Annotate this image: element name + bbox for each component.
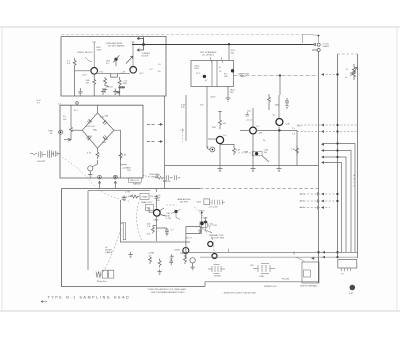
dashed connector y131.5 — [297, 131, 358, 133]
set-scanning outer box — [191, 61, 234, 87]
sampler emitter rail — [155, 216, 157, 241]
trig transistor Q — [88, 166, 93, 171]
vertical rail sampler feed — [155, 189, 157, 210]
svg-text:470 3W: 470 3W — [163, 181, 171, 183]
wire Q34 collector top — [278, 95, 280, 118]
inner top wire — [88, 190, 150, 192]
delay line feed wire — [120, 200, 190, 242]
svg-text:+12.6: +12.6 — [299, 194, 305, 196]
resistor emitter network — [220, 144, 236, 155]
svg-text:AVALANCHE: AVALANCHE — [178, 198, 191, 201]
svg-text:C302: C302 — [196, 201, 202, 203]
trigger block outline — [60, 105, 143, 178]
arrow on rail right end — [311, 257, 314, 260]
wire Q24 base — [240, 130, 250, 132]
set-scanning divider 1 — [211, 61, 213, 87]
sampler transistor — [154, 210, 161, 217]
trig input connector — [59, 130, 63, 134]
ground sym x80 — [78, 88, 82, 95]
arrow to trig block upper — [137, 37, 144, 51]
dark transistor t210 — [208, 242, 213, 247]
cap right of Q34 — [285, 98, 289, 109]
svg-text:100 R76: 100 R76 — [180, 202, 189, 204]
dashed curve to lower block — [62, 158, 131, 202]
inverter transistor — [183, 248, 189, 254]
pot wiper diagonal — [351, 67, 358, 76]
title arrow — [41, 301, 47, 303]
caps cluster c1 — [208, 265, 225, 274]
lower block bottom right — [205, 259, 319, 287]
connector wire y157 — [322, 157, 346, 252]
svg-text:10V: 10V — [230, 92, 234, 94]
ground sym x115 — [113, 89, 117, 95]
strobe dot — [255, 152, 258, 155]
avalanche strobe rect — [204, 199, 210, 205]
wire Q21 emitter — [219, 144, 221, 166]
svg-text:1 TD: 1 TD — [99, 72, 104, 74]
top row: cap 4.7M — [122, 196, 126, 202]
avalanche wire — [201, 210, 203, 234]
top row cap 100 — [155, 195, 159, 200]
svg-text:+LINE: +LINE — [148, 253, 155, 255]
dashes mid bottom — [238, 152, 252, 154]
base wire Q13 — [75, 70, 91, 72]
swp inner rect — [304, 270, 311, 277]
wire sampler collector — [160, 208, 166, 216]
ground x103 under block — [101, 88, 105, 94]
bridge bottom wire — [97, 148, 99, 151]
svg-text:DC LEVELS: DC LEVELS — [202, 55, 215, 57]
vertical bus x357 — [357, 54, 359, 258]
wire +100V feed — [93, 42, 96, 67]
svg-text:DELAY: DELAY — [214, 275, 222, 278]
ground below rail Q34 — [277, 166, 282, 172]
norm psn dot — [174, 210, 177, 213]
ext trig cap ticks — [39, 151, 46, 158]
input resistor x71 — [70, 105, 73, 140]
svg-text:5347: 5347 — [180, 253, 186, 255]
dark transistor t214 — [212, 254, 217, 259]
wire corner above block — [121, 164, 127, 166]
junction dot x229 rail — [228, 43, 230, 45]
svg-text:720 71: 720 71 — [185, 238, 192, 240]
resistor column x119.7 — [118, 77, 121, 96]
transistor Q13 — [91, 68, 98, 75]
svg-text:SET SCANNING: SET SCANNING — [200, 51, 217, 54]
trigger regen block outline — [61, 37, 166, 97]
tp circle bottom 1 — [98, 175, 102, 179]
arrowheads right connectors — [321, 124, 324, 209]
dashed connector y74.5 — [322, 74, 338, 76]
leader lines scanning — [210, 57, 223, 63]
svg-text:CABLE: CABLE — [105, 251, 113, 254]
wire top right corner — [302, 35, 319, 44]
resistor below bridge — [96, 151, 99, 164]
lower block outline — [62, 189, 206, 287]
svg-text:4.7M: 4.7M — [125, 192, 130, 194]
sampler base stub — [149, 208, 154, 212]
page left edge — [1, 27, 3, 311]
gnd under q2 — [190, 263, 194, 270]
svg-text:SWP EXTERNAL: SWP EXTERNAL — [300, 285, 318, 288]
svg-text:TRIG: TRIG — [48, 131, 54, 133]
svg-text:524B: 524B — [202, 218, 208, 220]
scope box marks — [342, 268, 351, 271]
dashed connector y125 — [297, 124, 358, 126]
svg-text:NO SET RANGE: NO SET RANGE — [108, 45, 125, 48]
page top edge — [0, 26, 400, 28]
svg-text:+19.5V: +19.5V — [322, 44, 330, 46]
junction dot 337/74.5 — [336, 73, 338, 75]
stamp blob — [350, 285, 356, 291]
inner left vertical — [87, 191, 89, 270]
wire Q24 emitter — [252, 134, 254, 166]
wire right transistor top — [131, 42, 134, 66]
resistor 47k cluster — [268, 94, 271, 110]
junction dot q34 base — [278, 129, 280, 131]
bal rect — [145, 205, 153, 211]
up arrow tp1 — [98, 181, 100, 189]
svg-text:5-25: 5-25 — [213, 225, 218, 227]
arrowhead trig conn 1 — [160, 123, 163, 126]
coax ticks — [229, 249, 294, 255]
avalanche gnd — [198, 229, 202, 234]
wire into Q — [92, 164, 98, 167]
swp ext box — [302, 262, 319, 283]
tunnel diode dot — [114, 58, 117, 61]
arrowhead trig conn 2 — [160, 140, 163, 143]
svg-text:SNAP OFF: SNAP OFF — [141, 201, 153, 204]
svg-text:5-25: 5-25 — [108, 87, 113, 89]
junction dots right bus — [317, 35, 338, 259]
dashed connector y207.5 — [300, 207, 330, 209]
connector bars right edge — [316, 192, 318, 209]
ground under Q — [88, 171, 92, 177]
svg-text:GA5D: GA5D — [153, 219, 159, 222]
svg-text:+BLK: +BLK — [230, 90, 236, 92]
svg-text:4.7M: 4.7M — [166, 218, 171, 220]
svg-text:56B: 56B — [123, 83, 127, 85]
transformer dark bars — [48, 150, 52, 158]
strobe diagonal — [262, 156, 269, 162]
transistor Q24 — [250, 127, 257, 134]
probe power rects — [96, 270, 114, 278]
resistor gnd x159 — [157, 259, 161, 275]
connector wire y144.5 — [322, 144, 355, 253]
testpoint connector circle — [210, 147, 215, 152]
right top connector pair — [312, 43, 320, 51]
pot R in dashed box — [350, 64, 356, 80]
ground below rail Q21 — [218, 166, 223, 172]
cap near Q24 top — [245, 112, 249, 116]
pot wiper arrow — [126, 56, 133, 64]
bridge right wire — [114, 130, 121, 178]
shield arc bottom left — [97, 229, 121, 282]
dashed connector y194 — [300, 193, 338, 195]
lower block top dashed right — [200, 188, 319, 190]
schematic outer dashed boundary top — [61, 34, 302, 36]
trigger level box — [128, 178, 141, 182]
svg-text:ADJUST R85: ADJUST R85 — [211, 237, 225, 240]
svg-text:RANGE: RANGE — [133, 183, 141, 186]
svg-text:TD45: TD45 — [199, 211, 205, 213]
wire x207 to tp — [207, 146, 210, 150]
svg-text:MOUNT: MOUNT — [38, 161, 47, 163]
bottom right: scope box — [338, 260, 357, 269]
svg-text:Q50B: Q50B — [174, 250, 180, 252]
resistor x185 — [184, 255, 187, 264]
resistor above Q21 — [218, 112, 221, 130]
avalanche caps ticks — [209, 200, 224, 205]
caps cluster c2 — [253, 264, 275, 274]
top edge connector circle — [76, 102, 79, 105]
svg-text:DELAY: DELAY — [105, 249, 113, 252]
up arrow tp2 — [114, 181, 116, 189]
svg-text:SEE T/M MEASUREMENTS INFO: SEE T/M MEASUREMENTS INFO — [151, 291, 185, 294]
bridge diode marks — [86, 119, 107, 140]
resistor +line — [149, 255, 152, 264]
strobe dot lower — [204, 221, 207, 224]
dashes sampler-avalanche — [167, 204, 177, 206]
vertical rail x207 — [206, 87, 208, 147]
svg-text:NORMAL PSN: NORMAL PSN — [209, 234, 224, 237]
tp circle bottom 2 — [113, 175, 117, 179]
transistor q2 low — [190, 258, 195, 263]
arrowhead y74.5 — [321, 73, 324, 76]
curved leader — [85, 57, 92, 62]
sampling-rate wire y75 — [234, 75, 319, 77]
avalanche dot box — [200, 222, 207, 228]
delay line tall rect — [123, 223, 125, 240]
connector wire y162.5 — [322, 163, 342, 253]
transistor Q dot scanning2 — [231, 69, 234, 72]
svg-text:-12.6: -12.6 — [299, 201, 305, 203]
wire Q24 collector — [252, 108, 254, 127]
arrow on coax lower — [322, 256, 325, 259]
misc wires lower right — [206, 217, 213, 233]
svg-text:100V: 100V — [194, 68, 200, 70]
right cap ticks — [52, 151, 61, 157]
wire 77ohm box — [186, 227, 200, 258]
interstage RC cluster — [155, 175, 180, 180]
wire Q24-Q34 node — [256, 129, 297, 131]
long vertical interconnect x164.5 — [164, 96, 166, 189]
svg-text:DIODE: DIODE — [142, 56, 149, 58]
svg-text:SWEEP SVC: SWEEP SVC — [264, 286, 277, 288]
svg-text:TRIG LVL: TRIG LVL — [130, 180, 140, 182]
ground below rail Q24 — [251, 166, 256, 172]
bridge diamond — [82, 113, 114, 148]
svg-text:+ DENOTES LIGHTLY ADJUSTED: + DENOTES LIGHTLY ADJUSTED — [222, 292, 256, 295]
svg-text:D42 D44: D42 D44 — [86, 126, 95, 128]
resistor 82k — [151, 226, 156, 234]
resistor column x105 — [103, 77, 107, 92]
top row resistor — [130, 195, 139, 198]
svg-text:SNAP: SNAP — [142, 196, 148, 199]
page bottom edge — [0, 310, 400, 312]
vertical bus x318 — [318, 52, 320, 284]
svg-text:RATE: RATE — [240, 75, 246, 78]
thick rail y44.5 — [132, 44, 313, 46]
junction dot avalanche wire — [201, 212, 203, 214]
junction dot x280 rate wire — [279, 74, 281, 76]
svg-text:TRIGGER RATE: TRIGGER RATE — [106, 42, 123, 45]
svg-text:TYPE N-1 SAMPLING HEAD: TYPE N-1 SAMPLING HEAD — [48, 296, 131, 300]
resistor on x297 — [296, 146, 299, 155]
swp curve — [295, 257, 305, 262]
strobe rect — [252, 151, 262, 155]
wire Q34 emitter — [278, 127, 280, 166]
svg-text:100V: 100V — [97, 49, 103, 51]
inverter emitter stub — [185, 254, 187, 259]
set-scanning divider 2 — [216, 61, 218, 87]
bridge left wire — [71, 129, 82, 131]
page right edge — [396, 27, 398, 311]
signal rail upper — [182, 251, 358, 253]
transistor Q dot scanning — [203, 75, 206, 78]
boundary stub x302 — [302, 35, 304, 44]
left rail x186 — [185, 95, 187, 141]
svg-text:+BLK: +BLK — [210, 97, 216, 99]
connector arrows right of trigger block — [147, 124, 161, 141]
svg-text:LINE: LINE — [259, 276, 264, 278]
svg-text:+GATE: +GATE — [322, 45, 330, 48]
rail x228 gnd — [226, 86, 231, 101]
signal rail lower — [200, 256, 358, 258]
vertical bus x337 — [337, 54, 339, 258]
bridge top wire — [97, 105, 99, 113]
svg-text:RT-030: RT-030 — [282, 279, 290, 281]
svg-text:4-1.5 2M: 4-1.5 2M — [209, 207, 218, 209]
svg-text:TRIG'D RECOV: TRIG'D RECOV — [77, 52, 93, 54]
transistor Q34 — [276, 119, 283, 126]
right rail x297 — [296, 130, 298, 165]
vertical rail x229 — [228, 45, 230, 61]
transistor Q17 — [130, 67, 137, 74]
tunnel diode lead — [113, 55, 119, 66]
avalanche dot — [200, 222, 204, 226]
gnd mid — [128, 252, 132, 258]
dashed connector y201 — [300, 200, 338, 202]
dashed pot box top — [338, 53, 358, 55]
cap 5-25 — [104, 86, 109, 87]
avalanche diagonal — [202, 227, 208, 232]
svg-text:+2 5.6: +2 5.6 — [119, 87, 126, 89]
interstage dashed leader — [143, 175, 152, 177]
shield arc left of sampler — [137, 202, 142, 241]
connector wire y150.5 — [322, 151, 351, 253]
rail x280 top feed — [279, 76, 281, 96]
svg-text:2N: 2N — [150, 196, 153, 198]
svg-text:+.35: +.35 — [121, 72, 126, 74]
ext trig wavy lead — [30, 153, 37, 154]
cap x171 — [169, 259, 173, 266]
Q21 base wire — [208, 138, 216, 140]
svg-text:4-67: 4-67 — [349, 293, 354, 295]
resistor on x120 — [119, 152, 122, 160]
dashed vert x182 — [181, 128, 183, 142]
input arrow — [64, 138, 71, 141]
rail stub up — [143, 37, 145, 45]
top row relay box — [140, 193, 149, 199]
arrow on coax right — [322, 251, 325, 254]
svg-text:+100: +100 — [299, 207, 305, 209]
junction dot rail — [142, 43, 145, 46]
norm psn leads — [171, 210, 180, 220]
shield arc right — [194, 207, 214, 251]
resistor left rail — [73, 58, 76, 96]
gnd x171 — [169, 254, 173, 260]
transistor Q21 — [216, 136, 223, 143]
svg-text:* DENOTES APPROX VOLT AND GAIN: * DENOTES APPROX VOLT AND GAIN — [147, 288, 186, 291]
middle block bottom rail — [165, 165, 319, 167]
emitter resistor Q13 — [93, 74, 96, 96]
svg-text:+10.4: +10.4 — [246, 120, 252, 122]
svg-text:TIME: TIME — [243, 152, 249, 154]
svg-text:ProbePwr: ProbePwr — [97, 280, 107, 283]
svg-text:SAMPLING: SAMPLING — [238, 73, 250, 76]
coupling network between Q13 Q17 — [98, 73, 130, 77]
cap 4.7 gnd — [156, 228, 168, 236]
